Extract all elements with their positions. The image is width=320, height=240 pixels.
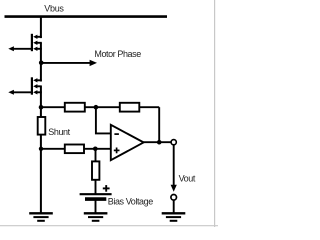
wire motor phase arrow xyxy=(41,60,97,66)
svg-text:Bias Voltage: Bias Voltage xyxy=(108,196,153,206)
border bottom edge xyxy=(0,225,218,227)
wire Vout terminal to ground xyxy=(173,200,175,213)
resistor R2 feedback xyxy=(120,103,140,112)
wire motor node to Q2 drain xyxy=(40,63,42,82)
battery BT1 negative plate xyxy=(85,197,106,201)
node output terminal circle xyxy=(171,140,176,145)
node Vout terminal circle xyxy=(171,195,177,201)
wire Q1 gate lead with arrowhead xyxy=(8,46,31,51)
ground left xyxy=(29,213,53,221)
node shunt top junction xyxy=(39,105,44,110)
wire Q2 gate lead with arrowhead xyxy=(8,90,31,95)
wire bias junction down to battery xyxy=(95,149,97,194)
battery BT1 plus polarity mark xyxy=(103,185,110,192)
svg-text:Motor Phase: Motor Phase xyxy=(94,49,141,59)
wire Q1 drain to Vbus xyxy=(40,17,42,38)
transistor Q1 xyxy=(32,34,42,51)
node shunt bottom junction xyxy=(39,147,43,151)
node motor phase junction xyxy=(39,61,44,66)
svg-text:Shunt: Shunt xyxy=(48,127,70,137)
svg-text:Vbus: Vbus xyxy=(44,3,64,13)
wire op-amp output xyxy=(143,141,171,143)
ground center xyxy=(84,213,108,221)
wire Vout arrow down xyxy=(171,145,177,192)
wire Q2 source down to shunt top node xyxy=(40,86,42,108)
wire shunt top node to feedback corner xyxy=(41,106,159,108)
svg-text:Vout: Vout xyxy=(179,174,196,184)
wire shunt bottom to non-inverting input xyxy=(41,148,111,150)
transistor Q2 xyxy=(32,77,42,94)
node bias junction xyxy=(93,147,98,152)
node output junction xyxy=(157,140,162,145)
ground right xyxy=(162,213,186,221)
wire shunt column (top node through shunt to ground) xyxy=(40,107,42,213)
wire feedback corner down to output node xyxy=(158,107,160,142)
border right edge xyxy=(214,0,216,227)
wire Q1 source to motor node xyxy=(40,43,42,63)
wire drop to inverting input xyxy=(96,107,111,133)
node inverting input junction xyxy=(94,105,99,110)
wire Vbus rail xyxy=(5,15,168,18)
resistor R4 bias xyxy=(92,161,99,179)
resistor R1 input top xyxy=(65,103,85,112)
wire battery to center ground xyxy=(95,199,97,213)
resistor R3 input bottom xyxy=(65,145,84,154)
battery BT1 bias voltage positive plate xyxy=(80,193,112,195)
op-amp U1 xyxy=(111,125,144,160)
resistor Shunt xyxy=(38,117,46,135)
